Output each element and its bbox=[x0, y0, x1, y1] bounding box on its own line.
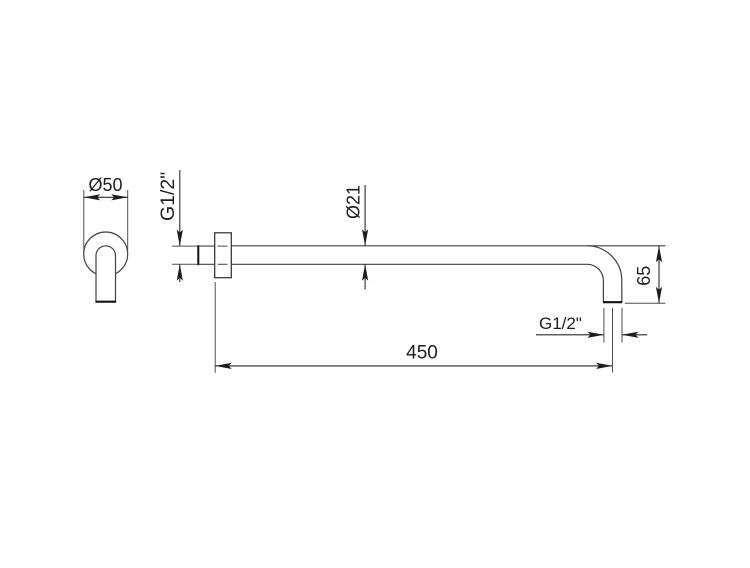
dim 450 right extension line (outlet axis) bbox=[612, 308, 614, 373]
dim G1/2 left extension lines bbox=[172, 245, 198, 247]
side view: wall thread stub G1/2 bbox=[197, 245, 199, 265]
side view: hidden tube edges inside flange (dashes) bbox=[218, 245, 228, 247]
dim G1/2 left: vertical dimension line with outside arrows bbox=[179, 170, 181, 246]
dim Ø50 dimension line with arrows bbox=[84, 196, 128, 198]
svg-text:65: 65 bbox=[634, 266, 654, 286]
dim Ø21: vertical dimension line with outside arrows bbox=[364, 185, 366, 246]
side view: bend outer arc bbox=[587, 246, 622, 281]
svg-text:G1/2": G1/2" bbox=[539, 314, 582, 333]
dim G1/2 right: extension lines below outlet bbox=[603, 308, 605, 343]
svg-text:Ø21: Ø21 bbox=[343, 185, 363, 219]
dim Ø50 extension lines bbox=[83, 190, 85, 250]
side view: bend inner arc bbox=[587, 264, 603, 280]
side view: arm tube top edge + 65-dim top extension bbox=[231, 245, 665, 247]
front view: arm tube seen head-on bbox=[96, 246, 116, 302]
side view: wall flange block bbox=[215, 233, 232, 278]
side view: outlet end face (bold cap) bbox=[603, 301, 622, 303]
dim 65 bottom extension line bbox=[625, 302, 666, 304]
side view: arm tube bottom edge bbox=[231, 263, 587, 265]
dim 65 dimension line with arrows bbox=[658, 246, 660, 303]
front view: tube end face (bold cap) bbox=[95, 301, 116, 303]
svg-text:Ø50: Ø50 bbox=[89, 175, 123, 195]
dim 450 left extension line (wall axis) bbox=[214, 282, 216, 373]
side view: outlet tube edges bbox=[602, 281, 604, 302]
dim 450 dimension line with arrows bbox=[215, 365, 612, 367]
svg-text:G1/2": G1/2" bbox=[157, 172, 179, 221]
dim G1/2 right: dimension lines with outside arrows bbox=[536, 334, 604, 336]
svg-text:450: 450 bbox=[406, 343, 438, 364]
front view: wall flange circle bbox=[84, 232, 128, 276]
